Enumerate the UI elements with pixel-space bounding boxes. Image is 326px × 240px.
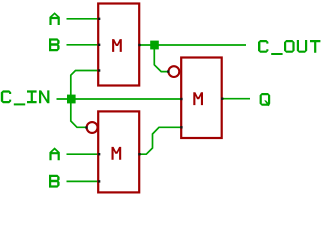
wire A top input: [67, 18, 99, 20]
node C_OUT junction: [150, 41, 159, 50]
wire from bottom gate output up to middle gate pin 3: [139, 127, 181, 154]
wire A bottom input: [67, 153, 99, 155]
label B (top input): [49, 38, 60, 51]
pin contact dots (dark blend pixels at wire/body junctions): [85, 18, 223, 183]
label C_IN: [1, 90, 50, 105]
wire B top input: [67, 44, 99, 46]
label A (top input): [49, 12, 59, 25]
wire C_OUT net from top gate output: [139, 44, 246, 46]
wire from node C_IN down to inverted input of bottom majority gate: [71, 99, 86, 127]
majority gate U3 label M: [112, 147, 122, 160]
wire Q output: [222, 98, 251, 100]
label C_OUT: [258, 40, 320, 55]
wire B bottom input: [67, 180, 99, 182]
majority gate U3 (bottom) body: [98, 111, 139, 192]
majority gate U1 label M: [112, 39, 122, 52]
inversion bubble on U2 pin 1: [169, 66, 180, 77]
label B (bottom input): [49, 175, 60, 188]
node C_IN junction: [67, 95, 76, 104]
wire from node C_IN up to top majority gate pin 3: [71, 71, 98, 100]
majority gate U2 label M: [193, 92, 203, 105]
label A (bottom input): [49, 147, 59, 160]
majority gate U2 (middle) body: [181, 58, 222, 139]
inversion bubble on U3 pin 1: [87, 122, 98, 133]
wire C_IN net horizontal: [57, 98, 182, 100]
label Q: [260, 93, 271, 106]
majority gate U1 (top) body: [98, 4, 139, 86]
wire from node C_OUT down to inverted input of middle majority gate: [154, 45, 168, 72]
